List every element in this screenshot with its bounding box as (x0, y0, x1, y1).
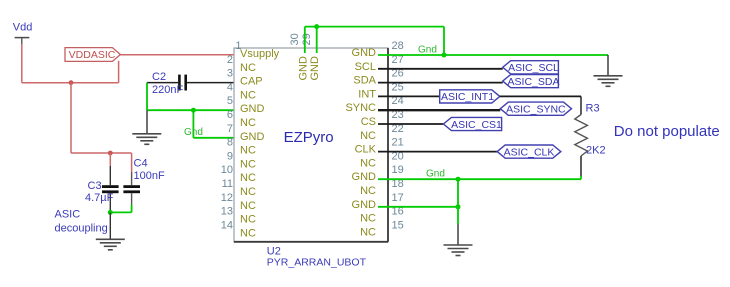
wire pin1 Vsupply red (120, 54, 240, 56)
svg-text:30: 30 (289, 33, 301, 45)
svg-text:ASIC_INT1: ASIC_INT1 (441, 91, 494, 103)
svg-text:NC: NC (360, 157, 376, 169)
svg-text:ASIC: ASIC (55, 209, 81, 221)
wire red horizontal upper (22, 82, 119, 84)
svg-text:NC: NC (360, 226, 376, 238)
port ASIC_SCL (503, 61, 559, 74)
svg-text:C3: C3 (88, 180, 102, 192)
svg-text:NC: NC (240, 89, 256, 101)
svg-text:2: 2 (227, 54, 233, 66)
wire red C3 drop (109, 153, 111, 166)
svg-text:decoupling: decoupling (55, 223, 108, 235)
svg-text:GND: GND (240, 131, 265, 143)
svg-text:NC: NC (240, 186, 256, 198)
svg-text:Vsupply: Vsupply (240, 48, 280, 60)
svg-text:GND: GND (309, 56, 321, 81)
svg-text:NC: NC (240, 227, 256, 239)
svg-text:Vdd: Vdd (13, 22, 33, 34)
junction green top (314, 24, 319, 29)
svg-text:Do not populate: Do not populate (614, 123, 720, 140)
svg-text:NC: NC (240, 214, 256, 226)
svg-text:ASIC_SDA: ASIC_SDA (508, 76, 560, 88)
ground symbol decoupling (96, 239, 125, 250)
svg-text:100nF: 100nF (134, 170, 165, 182)
svg-text:NC: NC (360, 213, 376, 225)
svg-text:10: 10 (221, 164, 233, 176)
port ASIC_INT1 (440, 90, 500, 103)
svg-text:3: 3 (227, 68, 233, 80)
svg-text:GND: GND (297, 56, 309, 81)
svg-text:1: 1 (235, 40, 241, 52)
svg-text:11: 11 (222, 178, 233, 190)
wire red C4 drop (131, 153, 133, 172)
svg-text:SDA: SDA (353, 75, 376, 87)
svg-text:C4: C4 (134, 158, 148, 170)
svg-text:Gnd: Gnd (184, 127, 203, 138)
wire red port drop (118, 61, 120, 83)
wire red vertical mid (70, 83, 72, 153)
svg-text:19: 19 (392, 164, 404, 176)
junction red A (69, 80, 74, 85)
port ASIC_SDA (503, 75, 560, 88)
capacitor C4 (123, 158, 165, 206)
svg-text:GND: GND (352, 199, 377, 211)
svg-text:CLK: CLK (355, 144, 377, 156)
svg-text:4: 4 (227, 81, 233, 93)
svg-text:220nF: 220nF (152, 84, 183, 96)
wire red horizontal lower (71, 152, 132, 154)
svg-text:9: 9 (227, 150, 233, 162)
svg-text:5: 5 (227, 95, 233, 107)
svg-text:12: 12 (221, 192, 233, 204)
svg-text:NC: NC (360, 185, 376, 197)
ground symbol bottom (444, 245, 473, 256)
wire gnd stub decoupling (109, 212, 111, 239)
wire green top right drop (443, 27, 445, 55)
svg-text:VDDASIC: VDDASIC (69, 49, 116, 61)
svg-text:21: 21 (392, 137, 404, 149)
pin names right (345, 47, 376, 238)
wire pin27 SCL (378, 68, 503, 70)
power port Vdd (13, 22, 33, 45)
wire green pin17 (378, 206, 458, 208)
svg-text:CS: CS (361, 116, 376, 128)
svg-text:15: 15 (392, 219, 404, 231)
pin numbers left (221, 40, 242, 231)
svg-text:SCL: SCL (355, 61, 376, 73)
wire pin25 INT (378, 95, 440, 97)
ground symbol top right (594, 76, 623, 87)
pin numbers right (392, 40, 404, 231)
wire green C3-C4 bottom link (110, 211, 131, 213)
svg-text:NC: NC (240, 145, 256, 157)
svg-text:Gnd: Gnd (426, 169, 445, 180)
wire pin24 SYNC (378, 109, 500, 111)
svg-text:PYR_ARRAN_UBOT: PYR_ARRAN_UBOT (267, 256, 367, 268)
svg-text:NC: NC (240, 117, 256, 129)
junction green pin7 branch (191, 108, 196, 113)
wire green branch vertical (192, 110, 194, 138)
wire green R3 bottom (580, 176, 582, 179)
wire green pin28 (378, 54, 608, 56)
port ASIC_CS1 (443, 117, 502, 130)
svg-text:NC: NC (240, 172, 256, 184)
svg-text:GND: GND (240, 103, 265, 115)
svg-text:ASIC_SYNC: ASIC_SYNC (506, 104, 566, 116)
svg-text:7: 7 (227, 123, 233, 135)
junction green pin19 (456, 177, 461, 182)
svg-text:SYNC: SYNC (345, 102, 376, 114)
svg-text:GND: GND (352, 47, 377, 59)
wire pin26 SDA (378, 82, 503, 84)
op-amp U2 IC body (234, 48, 388, 242)
wire green C4 bottom (131, 205, 133, 212)
svg-text:NC: NC (240, 200, 256, 212)
junction green C3 bottom (108, 210, 113, 215)
svg-text:ASIC_CLK: ASIC_CLK (504, 146, 555, 158)
svg-text:R3: R3 (586, 103, 600, 115)
svg-text:ASIC_CS1: ASIC_CS1 (451, 119, 502, 131)
svg-text:CAP: CAP (240, 76, 263, 88)
wire R3 top lead (580, 96, 582, 114)
svg-text:17: 17 (392, 192, 404, 204)
wire gnd stub top right (607, 55, 609, 76)
wire green C2-gnd vertical (146, 83, 148, 111)
svg-text:28: 28 (392, 40, 404, 52)
resistor R3 (575, 103, 606, 177)
svg-text:8: 8 (227, 137, 233, 149)
svg-text:2K2: 2K2 (586, 145, 606, 157)
wire green pin30 stub (304, 27, 306, 53)
svg-text:GND: GND (352, 171, 377, 183)
pin names left (240, 48, 280, 239)
wire green pin29 stub (316, 27, 318, 53)
svg-text:6: 6 (227, 109, 233, 121)
wire INT1 to R3 (500, 95, 581, 97)
svg-text:EZPyro: EZPyro (284, 129, 334, 146)
port ASIC_SYNC (500, 102, 571, 115)
svg-text:NC: NC (360, 130, 376, 142)
port ASIC_CLK (497, 145, 561, 158)
wire pin23 CS (378, 123, 443, 125)
svg-text:INT: INT (358, 88, 376, 100)
svg-text:13: 13 (221, 206, 233, 218)
svg-text:NC: NC (240, 62, 256, 74)
svg-text:14: 14 (221, 219, 233, 231)
wire Vdd vertical red (21, 44, 23, 83)
wire gnd stub bottom (457, 224, 459, 245)
svg-text:4.7µF: 4.7µF (85, 192, 114, 204)
wire green pin7 (193, 137, 240, 139)
svg-text:29: 29 (301, 33, 313, 45)
svg-text:C2: C2 (152, 71, 166, 83)
port VDDASIC (65, 48, 120, 62)
wire green pin5 (147, 109, 240, 111)
svg-text:NC: NC (240, 158, 256, 170)
wire green pin19 (378, 178, 581, 180)
ground symbol C2 branch (132, 134, 161, 145)
capacitor C2 (147, 71, 240, 96)
wire green gnd vertical (457, 179, 459, 224)
svg-text:ASIC_SCL: ASIC_SCL (508, 62, 559, 74)
capacitor C3 (85, 166, 119, 212)
junction green pin28 (442, 53, 447, 58)
junction green pin17 (456, 204, 461, 209)
wire pin21 CLK (378, 151, 497, 153)
wire gnd stub C2 branch (146, 110, 148, 134)
wire green top horizontal (305, 26, 444, 28)
junction red B (108, 151, 113, 156)
svg-text:Gnd: Gnd (418, 44, 437, 55)
text ASIC decoupling (55, 209, 108, 235)
